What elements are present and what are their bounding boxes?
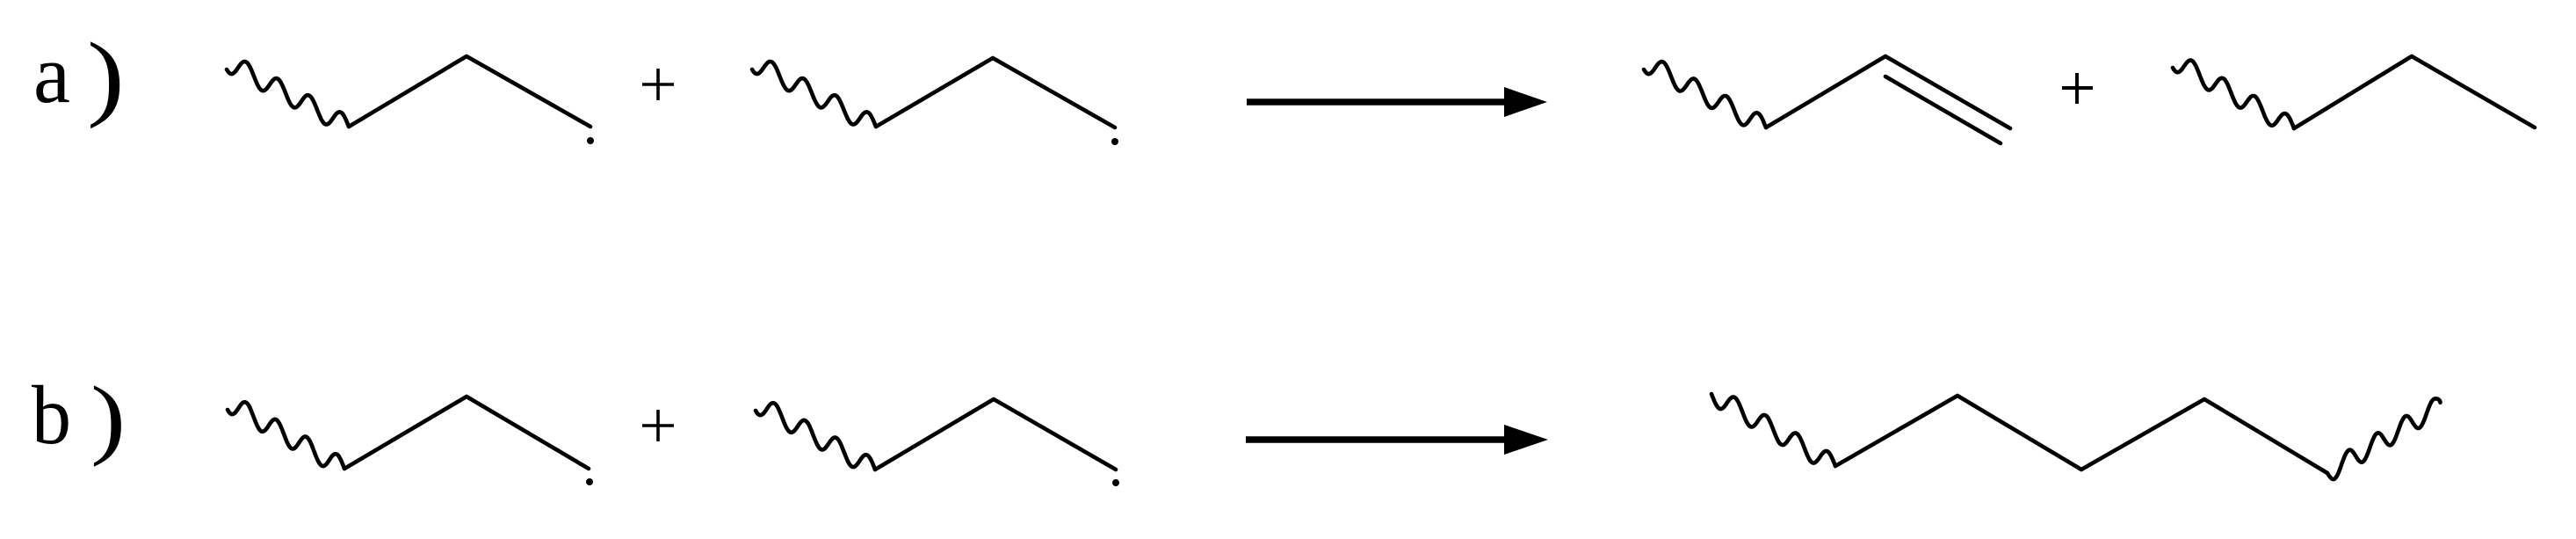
svg-text:): ) (90, 368, 126, 467)
right wavy bond of coupled product (2327, 398, 2441, 479)
C-C bond rising to alkene carbon (1766, 56, 1885, 127)
C-C bonds of radical 2 (876, 58, 1115, 127)
plus sign between reactants (row a) (642, 69, 674, 100)
reaction arrow (row b) (1246, 425, 1548, 455)
left wavy bond of coupled product (1711, 394, 1835, 466)
C-C bonds of radical 4 (875, 399, 1116, 470)
plus sign between products (row a) (2062, 73, 2093, 104)
svg-text:): ) (87, 23, 125, 129)
svg-text:b: b (32, 368, 71, 462)
wavy bond (polymer chain) of radical 2 (752, 62, 876, 127)
C=C double bond inner line (1885, 76, 2001, 143)
reaction arrow (row a) (1247, 87, 1547, 117)
label b parenthesis (90, 368, 126, 467)
radical dot of radical 1 (587, 137, 594, 144)
C-C zigzag backbone of coupled product (1835, 396, 2327, 473)
label a parenthesis (87, 23, 125, 129)
wavy bond of radical 4 (756, 403, 875, 470)
radical dot of radical 2 (1111, 138, 1118, 145)
C-C bonds of radical 1 (349, 56, 590, 127)
radical dot of radical 3 (586, 478, 593, 485)
plus sign between reactants (row b) (642, 410, 674, 441)
radical dot of radical 4 (1112, 479, 1119, 486)
svg-text:a: a (33, 27, 70, 120)
C-C bonds of radical 3 (344, 397, 589, 469)
wavy bond of alkane product (2173, 61, 2294, 128)
wavy bond of alkene product (1644, 62, 1766, 127)
wavy bond of radical 3 (228, 402, 344, 469)
C-C bonds of alkane product (2294, 56, 2535, 128)
C=C double bond outer line (1885, 56, 2010, 128)
wavy bond (polymer chain) of radical 1 (227, 62, 349, 127)
